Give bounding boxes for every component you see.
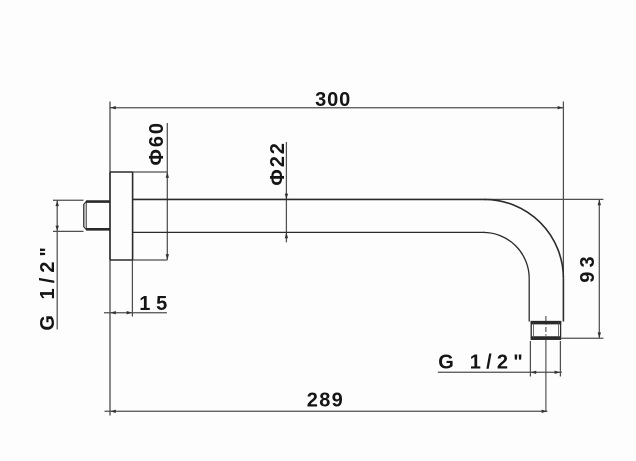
svg-text:Φ22: Φ22 [267,143,289,186]
svg-text:300: 300 [315,89,350,111]
svg-text:Φ60: Φ60 [146,123,168,166]
svg-text:289: 289 [307,390,343,412]
